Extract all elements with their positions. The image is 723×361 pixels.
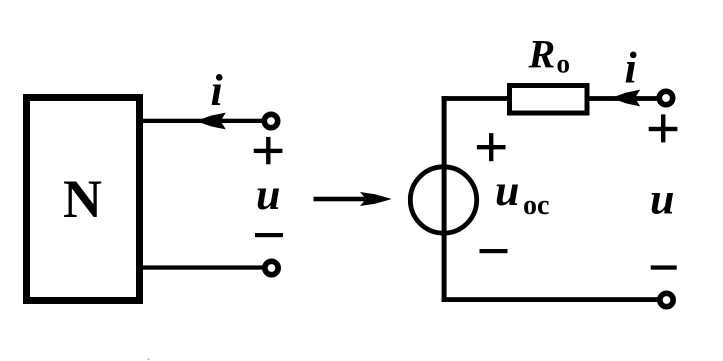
svg-text:u: u — [495, 166, 519, 215]
svg-text:N: N — [63, 169, 102, 229]
wire top of equivalent circuit (left of resistor) — [442, 96, 510, 101]
plus sign right port — [649, 127, 678, 131]
arrowhead current i left port — [196, 113, 226, 130]
plus sign left port — [254, 149, 283, 153]
network box N — [27, 98, 140, 301]
svg-text:i: i — [625, 44, 638, 93]
faint speck artifact bottom — [148, 359, 150, 361]
voltage source u_oc — [410, 167, 476, 233]
arrowhead current i right port — [611, 90, 640, 107]
wire top of equivalent circuit (right of resistor) — [587, 96, 660, 101]
svg-text:o: o — [557, 48, 571, 78]
svg-text:R: R — [528, 32, 556, 77]
terminal bottom-right — [660, 293, 673, 306]
resistor R_o — [510, 86, 588, 114]
svg-text:oc: oc — [523, 190, 549, 221]
minus sign right port — [651, 265, 677, 269]
wire bottom of equivalent circuit — [442, 297, 660, 302]
minus sign left port — [255, 233, 283, 237]
terminal top-left — [264, 114, 277, 127]
terminal bottom-left — [265, 261, 278, 274]
equivalence arrow — [314, 197, 366, 202]
plus sign of source — [477, 145, 506, 149]
wire bottom-left port — [140, 265, 264, 269]
minus sign of source — [480, 249, 508, 253]
terminal top-right — [659, 91, 672, 104]
svg-text:i: i — [211, 66, 224, 115]
svg-text:u: u — [256, 170, 280, 219]
wire left vertical of equivalent circuit — [442, 96, 447, 302]
wire top-left port — [140, 119, 264, 123]
svg-text:u: u — [650, 175, 674, 224]
